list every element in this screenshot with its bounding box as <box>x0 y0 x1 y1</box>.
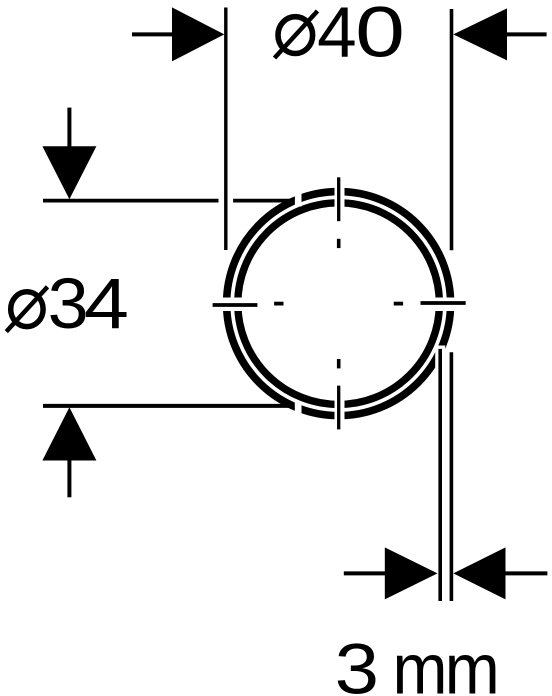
3 mm value text <box>335 629 497 696</box>
white gap in circles at bottom centerline crossing <box>335 396 345 425</box>
leader line top-right <box>506 32 547 36</box>
vertical centerline: upper dash <box>337 239 341 248</box>
ø34 bottom dimension line <box>43 404 295 408</box>
vertical centerline: top tick <box>337 177 340 221</box>
leader line top-left <box>132 32 173 36</box>
gap notch in outer circle at end of ø34 top line <box>295 193 302 207</box>
ø34 value text <box>48 264 129 344</box>
right 3mm extension line <box>450 352 454 601</box>
gap notch in outer circle at end of ø34 bottom line <box>295 402 302 416</box>
left-bottom dimension arrow (points up) <box>42 407 96 460</box>
right ø40 extension line <box>450 9 454 250</box>
leader line left-bottom <box>67 460 71 498</box>
left-top dimension arrow (points down) <box>42 146 96 199</box>
bottom-right dimension arrow (points left) <box>453 547 505 599</box>
svg-text:3: 3 <box>335 631 379 696</box>
ø (diameter) symbol of ø34 label <box>6 287 47 332</box>
ø (diameter) symbol of ø40 label <box>275 11 318 58</box>
horizontal centerline: right dash <box>394 302 403 306</box>
leader line bottom-right <box>505 571 548 575</box>
ø40 value text <box>317 0 405 73</box>
horizontal centerline: left tick <box>213 303 258 307</box>
vertical centerline: bottom tick <box>337 386 340 430</box>
horizontal centerline: left dash <box>274 302 283 306</box>
svg-text:0: 0 <box>355 0 405 72</box>
ø34 top dimension line <box>43 199 295 203</box>
white halo of left ø40 extension line (cuts ø34 top line) <box>219 12 234 248</box>
horizontal centerline: right tick <box>421 301 466 305</box>
svg-text:mm: mm <box>393 629 497 696</box>
vertical centerline: lower dash <box>337 359 341 368</box>
svg-text:4: 4 <box>317 0 357 73</box>
white gap in circles at left centerline crossing <box>218 298 244 312</box>
svg-text:4: 4 <box>84 265 129 344</box>
top-left dimension arrow (points right) <box>172 7 224 61</box>
left 3mm extension line <box>438 349 442 601</box>
leader line bottom-left <box>344 571 386 575</box>
outer pipe circle (ø40) <box>227 192 451 416</box>
left ø40 extension line <box>224 8 227 251</box>
top-right dimension arrow (points left) <box>453 8 507 60</box>
inner pipe circle (ø34 bore) <box>238 203 440 405</box>
white gap in circles at right centerline crossing <box>433 298 459 312</box>
leader line left-top <box>67 108 71 147</box>
halo of right 3mm extension line (cuts outer circle) <box>446 349 456 600</box>
bottom-left dimension arrow (points right) <box>385 547 438 599</box>
svg-text:3: 3 <box>48 264 89 343</box>
halo of left 3mm extension line (cuts outer circle) <box>435 346 445 601</box>
white gap in circles at top centerline crossing <box>335 181 345 214</box>
